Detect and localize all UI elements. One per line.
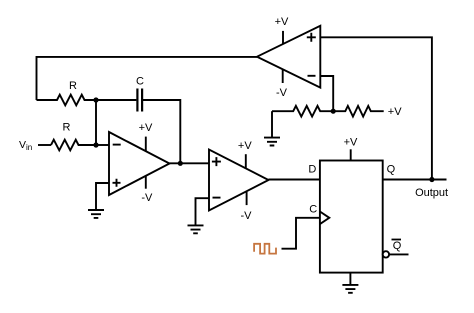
clock input triangle xyxy=(320,212,329,225)
wire node A to node B xyxy=(95,100,97,145)
node D (divider junction) xyxy=(331,109,336,114)
U1 minus sign xyxy=(113,144,121,146)
U3 plus sign xyxy=(307,33,316,42)
FF ground stem xyxy=(349,273,351,285)
svg-text:R: R xyxy=(69,80,77,92)
node C (U1 output) xyxy=(178,161,183,166)
U2 minus sign xyxy=(213,197,221,199)
ground G2 xyxy=(188,225,204,233)
resistor R2 (input) xyxy=(51,140,96,151)
resistor R1 (feedback) xyxy=(37,95,97,106)
U3 -V stub xyxy=(282,69,284,83)
clock waveform symbol xyxy=(254,244,276,254)
svg-text:+V: +V xyxy=(388,106,402,118)
svg-text:-V: -V xyxy=(241,210,253,222)
svg-text:+V: +V xyxy=(238,140,252,152)
node A (feedback/C junction) xyxy=(93,97,98,102)
svg-text:D: D xyxy=(308,164,316,176)
U2 +V stub xyxy=(245,154,247,169)
svg-text:+V: +V xyxy=(344,137,358,149)
FF +V stub xyxy=(350,149,352,160)
node OUT xyxy=(429,177,434,182)
op-amp U1 (integrator) xyxy=(109,132,170,195)
ground G3 xyxy=(264,138,280,146)
U1 +V stub xyxy=(145,137,147,152)
svg-text:C: C xyxy=(309,204,317,216)
svg-text:-V: -V xyxy=(276,87,288,99)
wire U1 output to U2 input xyxy=(170,162,210,164)
U2 plus sign xyxy=(212,157,221,166)
wire U2 inverting input to ground xyxy=(196,198,210,225)
ground G1 xyxy=(88,210,104,218)
U3 minus sign xyxy=(308,75,316,77)
op-amp U3 (comparator) xyxy=(257,26,320,88)
wire U2 output to D input xyxy=(269,179,320,181)
svg-text:+V: +V xyxy=(139,122,153,134)
svg-text:C: C xyxy=(136,76,144,88)
svg-text:-V: -V xyxy=(141,192,153,204)
U1 plus sign xyxy=(113,179,121,187)
wire comparator + input from output node xyxy=(320,37,432,179)
svg-text:Vin: Vin xyxy=(19,139,32,152)
capacitor C1 xyxy=(137,89,142,112)
wire node B to U1 inverting input xyxy=(96,144,109,146)
wire feedback loop from comparator output to integrator input xyxy=(37,57,258,100)
wire capacitor to output node xyxy=(143,100,180,163)
wire U1 non-inverting input to ground xyxy=(96,183,109,210)
wire clock input xyxy=(282,218,320,249)
resistor R3 (divider left) xyxy=(272,106,333,117)
svg-text:Output: Output xyxy=(415,187,448,199)
wire Vin xyxy=(38,144,51,146)
node B (inverting input junction) xyxy=(93,142,98,147)
svg-text:R: R xyxy=(63,122,71,134)
op-amp U2 xyxy=(209,150,269,211)
ground G4 xyxy=(342,285,358,293)
wire divider to ground xyxy=(271,111,273,137)
U1 -V stub xyxy=(145,176,147,189)
U2 -V stub xyxy=(246,192,248,205)
wire node A to capacitor xyxy=(96,99,136,101)
resistor R4 (divider right) xyxy=(333,106,384,117)
wire Q output xyxy=(383,179,447,181)
wire Qbar output xyxy=(389,253,408,255)
wire U3 inverting input to divider xyxy=(320,76,333,111)
Qbar bubble xyxy=(383,251,389,257)
svg-text:Q: Q xyxy=(393,240,402,252)
svg-text:Q: Q xyxy=(387,163,396,175)
D flip-flop U4 xyxy=(320,161,383,273)
Qbar overbar xyxy=(392,239,402,241)
svg-text:+V: +V xyxy=(275,16,289,28)
U3 +V stub xyxy=(282,31,284,44)
